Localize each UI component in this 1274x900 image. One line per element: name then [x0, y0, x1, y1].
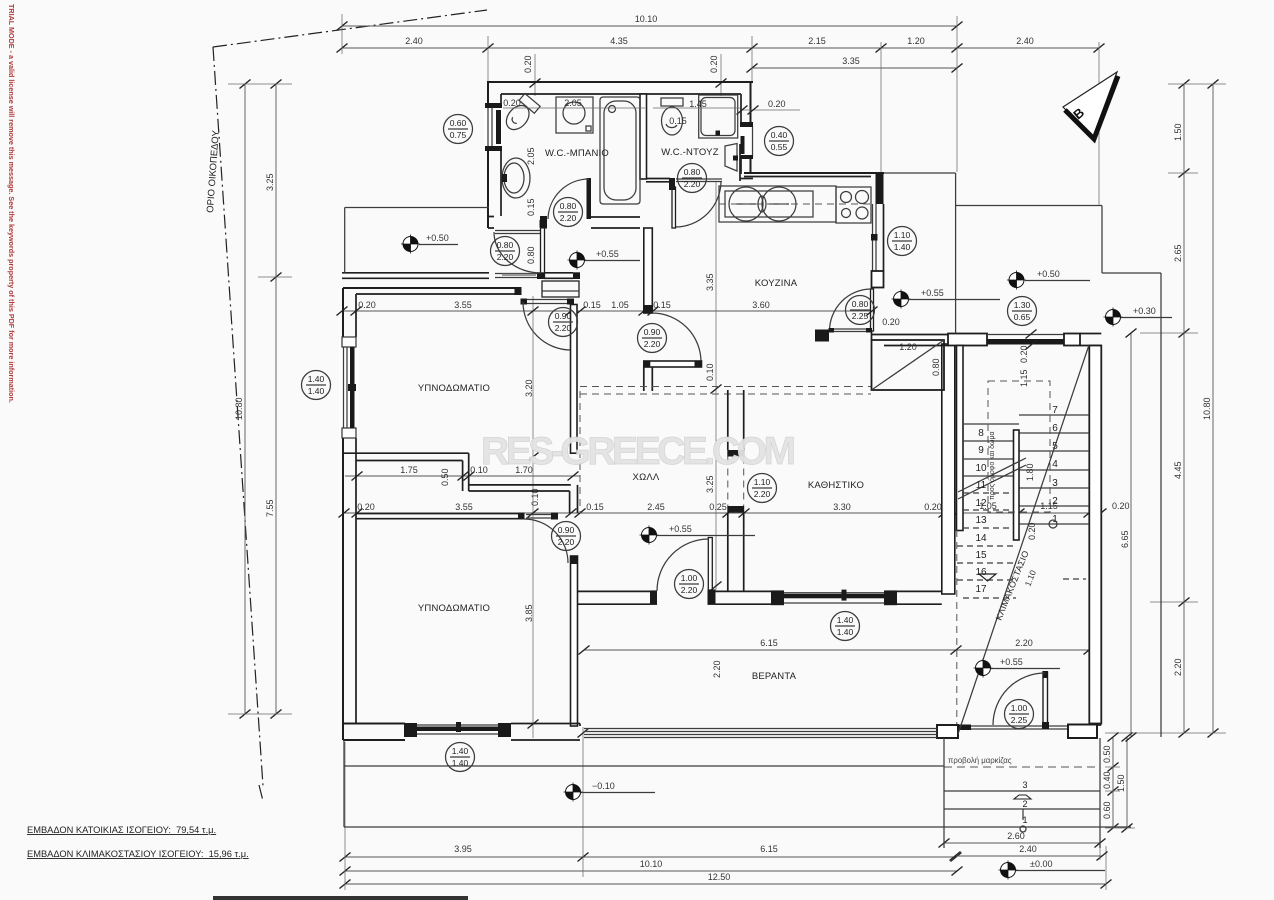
- dim row 2.40/4.35/2.15/1.20/2.40: [342, 47, 1099, 49]
- wall: closet east / bedroom2 NE: [570, 485, 578, 513]
- svg-text:1.40: 1.40: [308, 374, 325, 384]
- dim row 3.35: [752, 67, 957, 69]
- svg-text:2.20: 2.20: [684, 179, 701, 189]
- svg-text:0.80: 0.80: [526, 246, 536, 264]
- toilet shower-room: [661, 98, 683, 106]
- bottom extension lines: [344, 742, 346, 890]
- svg-text:2.15: 2.15: [808, 36, 826, 46]
- door: bedroom1 door 0.90 threshold: [524, 299, 570, 301]
- stair direction triangle at 16/17: [979, 574, 996, 581]
- svg-text:10.10: 10.10: [640, 859, 663, 869]
- svg-text:0.60: 0.60: [450, 118, 467, 128]
- dashed: open ceiling edge over hall/kitchen: [580, 386, 871, 388]
- window: bathroom west 0.60: [484, 106, 503, 148]
- svg-text:14: 14: [975, 533, 987, 544]
- svg-text:0.80: 0.80: [931, 358, 941, 376]
- fireplace: [872, 340, 945, 390]
- entrance steps dim 2.60: [944, 842, 1100, 844]
- veranda floor edge lines: [584, 729, 937, 738]
- stair diagonal line: [958, 345, 1089, 734]
- svg-text:0.90: 0.90: [558, 525, 575, 535]
- svg-text:+0.30: +0.30: [1133, 306, 1156, 316]
- interior vertical dim line hall/kitchen: [715, 182, 717, 590]
- svg-text:6: 6: [1052, 423, 1058, 434]
- wall: stair west: [957, 346, 964, 531]
- wall: south wall living segment w/ window 1.40: [716, 591, 772, 604]
- svg-text:0.40: 0.40: [771, 130, 788, 140]
- entrance steps: [944, 738, 1100, 848]
- svg-text:13: 13: [975, 515, 987, 526]
- level +0.50 NE terrace: [1007, 271, 1026, 290]
- door leaf: shower-room door 0.80: [675, 181, 721, 227]
- svg-text:2.20: 2.20: [1173, 658, 1183, 676]
- bottom dim row 12.50: [345, 883, 1106, 885]
- svg-text:1.40: 1.40: [837, 615, 854, 625]
- wall: WC block east exterior: [750, 82, 752, 174]
- wall: bedroom1 north: [343, 287, 521, 289]
- svg-text:ΚΑΘΗΣΤΙΚΟ: ΚΑΘΗΣΤΙΚΟ: [808, 480, 864, 491]
- svg-text:2.20: 2.20: [712, 660, 722, 678]
- right small dim column 1.50: [1126, 737, 1128, 828]
- svg-text:2.20: 2.20: [754, 489, 771, 499]
- veranda dim 6.15 / 2.20: [584, 649, 1089, 651]
- svg-text:3.25: 3.25: [265, 173, 275, 191]
- level +-0.00 ground: [999, 861, 1018, 880]
- svg-text:±0.00: ±0.00: [1030, 859, 1052, 869]
- wall: bedroom2 south exterior w/ window 1.40: [343, 724, 405, 741]
- svg-text:3.30: 3.30: [833, 502, 851, 512]
- stair numbers left flight: [975, 428, 987, 595]
- svg-text:0.15: 0.15: [526, 198, 536, 216]
- svg-text:1.40: 1.40: [894, 242, 911, 252]
- svg-text:10.80: 10.80: [1202, 397, 1212, 420]
- left dim column 3.25/7.55: [275, 84, 277, 714]
- svg-text:0.15: 0.15: [669, 116, 687, 126]
- svg-text:0.20: 0.20: [357, 502, 375, 512]
- wall: WC block west exterior: [487, 82, 489, 228]
- level +0.55 WC entry: [568, 251, 587, 270]
- svg-text:TRIAL MODE - a valid license w: TRIAL MODE - a valid license will remove…: [7, 4, 16, 403]
- stair dim row 1.05/1.15/0.20: [957, 512, 1101, 514]
- shower tray: [699, 95, 738, 138]
- svg-text:3.35: 3.35: [842, 56, 860, 66]
- svg-text:7: 7: [1052, 405, 1058, 416]
- left dim column 10.80: [244, 84, 246, 714]
- svg-text:0.15: 0.15: [653, 300, 671, 310]
- svg-text:3.60: 3.60: [752, 300, 770, 310]
- 0.20 wall offset ticks on top wall: [534, 54, 536, 96]
- svg-text:2.20: 2.20: [681, 585, 698, 595]
- svg-text:12.50: 12.50: [708, 872, 731, 882]
- svg-text:ΧΩΛΛ: ΧΩΛΛ: [633, 472, 660, 483]
- svg-text:+0.50: +0.50: [1037, 269, 1060, 279]
- svg-text:W.C.-ΜΠΑΝΙΟ: W.C.-ΜΠΑΝΙΟ: [545, 148, 609, 159]
- svg-text:1.20: 1.20: [899, 342, 917, 352]
- svg-text:1.15: 1.15: [1019, 369, 1029, 387]
- svg-text:3.85: 3.85: [524, 604, 534, 622]
- wall: hall north stub down to dashed: [644, 367, 653, 391]
- svg-text:1.40: 1.40: [837, 627, 854, 637]
- level +0.55 kitchen east: [892, 290, 911, 309]
- svg-text:ΕΜΒΑΔΟΝ ΚΛΙΜΑΚΟΣΤΑΣΙΟΥ ΙΣΟΓΕΙΟ: ΕΜΒΑΔΟΝ ΚΛΙΜΑΚΟΣΤΑΣΙΟΥ ΙΣΟΓΕΙΟΥ: 15,96 τ…: [27, 849, 249, 859]
- wall: bedroom2 north thin w/ door: [356, 513, 519, 515]
- door: corridor door 0.90 arc: [652, 313, 701, 362]
- toilet bathroom (rotated): [501, 93, 540, 134]
- interior dim row closet: [345, 475, 580, 477]
- window: bedroom1 west 1.40: [339, 337, 358, 438]
- svg-text:+0.55: +0.55: [921, 288, 944, 298]
- svg-text:1.75: 1.75: [400, 465, 418, 475]
- svg-text:0.20: 0.20: [768, 99, 786, 109]
- wall: hall/living divider x728-744: [728, 390, 744, 450]
- corner sink shower-room: [725, 144, 737, 172]
- closet detail right of WC door: [542, 281, 579, 297]
- wall: bathroom/shower-room divider: [640, 94, 647, 179]
- door leaf: entrance door 1.00: [1043, 672, 1048, 725]
- svg-text:4.35: 4.35: [610, 36, 628, 46]
- svg-text:0.55: 0.55: [771, 142, 788, 152]
- svg-text:1.40: 1.40: [308, 386, 325, 396]
- level +0.30 east terrace: [1104, 308, 1123, 327]
- svg-text:1.20: 1.20: [907, 36, 925, 46]
- svg-text:4.45: 4.45: [1173, 461, 1183, 479]
- door: kitchen-living door 0.80 leaf+arc: [871, 289, 874, 331]
- lower terrace -0.10 outline: [344, 740, 1131, 827]
- canopy projection dashed: [944, 766, 1098, 768]
- svg-text:15: 15: [975, 550, 987, 561]
- wall: bedroom1 east: [571, 305, 578, 454]
- svg-text:3.20: 3.20: [524, 379, 534, 397]
- right dim column 10.80: [1212, 84, 1214, 733]
- svg-text:−0.10: −0.10: [592, 781, 615, 791]
- svg-text:0.65: 0.65: [1014, 312, 1031, 322]
- svg-text:+0.55: +0.55: [669, 524, 692, 534]
- wall: south wall hall segment: [578, 591, 651, 604]
- wall: WC block top exterior: [487, 81, 753, 83]
- svg-text:0.80: 0.80: [497, 240, 514, 250]
- svg-text:2.20: 2.20: [558, 537, 575, 547]
- wall: hall north short w/ caps: [644, 361, 702, 367]
- svg-text:0.80: 0.80: [560, 201, 577, 211]
- svg-text:ΒΕΡΑΝΤΑ: ΒΕΡΑΝΤΑ: [752, 671, 797, 682]
- svg-text:1.00: 1.00: [1011, 703, 1028, 713]
- stair side dim 6.65: [1130, 333, 1132, 737]
- right small dim column 0.50/0.40/0.60: [1112, 737, 1114, 828]
- bathtub: [600, 97, 640, 204]
- door: hall-veranda door 1.00: [708, 538, 712, 591]
- svg-text:0.20: 0.20: [709, 55, 719, 73]
- svg-text:3.25: 3.25: [705, 475, 715, 493]
- svg-text:2.20: 2.20: [497, 252, 514, 262]
- svg-text:1.40: 1.40: [452, 746, 469, 756]
- svg-text:W.C.-ΝΤΟΥΖ: W.C.-ΝΤΟΥΖ: [661, 147, 718, 158]
- right dim column 1.50/2.65/4.45/2.20: [1183, 84, 1185, 733]
- stair numbers right flight: [1052, 405, 1058, 525]
- svg-text:2.40: 2.40: [1019, 844, 1037, 854]
- dashed centerline through counter: [719, 203, 871, 205]
- wall: entrance south w/ door 1.00: [937, 725, 958, 738]
- interior dim row bedroom2/hall/living: [344, 512, 957, 514]
- level +0.55 hall: [640, 526, 659, 545]
- level +0.55 entrance: [974, 659, 993, 678]
- svg-text:2.65: 2.65: [1173, 244, 1183, 262]
- wall: shower-room east niche/sink wall: [739, 144, 741, 181]
- wall: stair north w/ window 1.30 + sill boxes: [948, 334, 987, 346]
- svg-text:1.40: 1.40: [452, 758, 469, 768]
- level -0.10 terrace: [564, 783, 583, 802]
- stair left flight treads dashed: [957, 493, 1019, 580]
- svg-text:9: 9: [978, 445, 984, 456]
- svg-text:0.20: 0.20: [924, 502, 942, 512]
- wall: bedroom1 south / closet jog: [343, 453, 469, 491]
- wall: kitchen east w/ corner: [876, 173, 884, 204]
- svg-text:ΥΠΝΟΔΩΜΑΤΙΟ: ΥΠΝΟΔΩΜΑΤΙΟ: [418, 383, 490, 394]
- svg-text:2.40: 2.40: [405, 36, 423, 46]
- svg-text:1.30: 1.30: [1014, 300, 1031, 310]
- svg-text:1.10: 1.10: [894, 230, 911, 240]
- svg-text:1.50: 1.50: [1173, 123, 1183, 141]
- svg-text:2.45: 2.45: [647, 502, 665, 512]
- svg-text:12: 12: [975, 498, 987, 509]
- svg-text:8: 8: [978, 428, 984, 439]
- svg-text:ΥΠΝΟΔΩΜΑΤΙΟ: ΥΠΝΟΔΩΜΑΤΙΟ: [418, 603, 490, 614]
- svg-text:0.15: 0.15: [583, 300, 601, 310]
- svg-text:17: 17: [975, 584, 987, 595]
- right extension lines: [1168, 83, 1226, 85]
- left extension lines: [228, 83, 292, 85]
- stair left flight treads solid: [963, 424, 1019, 476]
- svg-text:0.20: 0.20: [523, 55, 533, 73]
- svg-text:6.15: 6.15: [760, 844, 778, 854]
- svg-text:10: 10: [975, 463, 987, 474]
- dashed rect upper floor: [988, 381, 1050, 512]
- wall: kitchen north: [744, 172, 884, 174]
- svg-text:ΚΟΥΖΙΝΑ: ΚΟΥΖΙΝΑ: [755, 278, 798, 289]
- entrance steps dim 2.40: [955, 855, 1102, 857]
- svg-text:1.50: 1.50: [1116, 774, 1126, 792]
- wall: stair east: [1089, 346, 1101, 724]
- door leaf: bathroom door 0.80: [587, 178, 592, 219]
- svg-text:RES-GREECE.COM: RES-GREECE.COM: [481, 430, 797, 473]
- svg-text:0.25: 0.25: [709, 502, 727, 512]
- svg-text:2.25: 2.25: [852, 311, 869, 321]
- svg-text:0.60: 0.60: [1102, 801, 1112, 819]
- bottom edge partial line: [213, 896, 468, 900]
- svg-text:0.90: 0.90: [644, 327, 661, 337]
- terrace thin edges NE: [884, 173, 1161, 737]
- bottom dim row 3.95/6.15: [345, 856, 956, 858]
- kitchen counter: [719, 186, 836, 222]
- svg-text:2.25: 2.25: [1011, 715, 1028, 725]
- washing machine: [556, 97, 593, 133]
- stair newel/stringer: [1014, 430, 1020, 540]
- svg-text:2.05: 2.05: [526, 147, 536, 165]
- stair break line: [958, 458, 1026, 499]
- interior dim row bedroom1/hall/kitchen: [342, 310, 872, 312]
- top extension lines: [341, 14, 343, 54]
- svg-text:10.80: 10.80: [234, 397, 244, 420]
- svg-text:3: 3: [1022, 780, 1027, 790]
- svg-text:2.20: 2.20: [555, 323, 572, 333]
- svg-text:προς όροφο και δώμα: προς όροφο και δώμα: [988, 431, 996, 500]
- stair right flight treads: [1019, 415, 1089, 524]
- svg-text:10.10: 10.10: [635, 14, 658, 24]
- wall: bathroom south w/ door opening: [488, 217, 494, 229]
- svg-text:0.20: 0.20: [1112, 501, 1130, 511]
- svg-text:2.05: 2.05: [564, 98, 582, 108]
- svg-text:3.35: 3.35: [705, 273, 715, 291]
- svg-text:2.20: 2.20: [1015, 638, 1033, 648]
- svg-text:2.20: 2.20: [560, 213, 577, 223]
- sink bathroom: [502, 158, 530, 198]
- dim 0.20 at shower window: [742, 109, 800, 111]
- svg-text:2: 2: [1052, 496, 1058, 507]
- svg-text:0.75: 0.75: [450, 130, 467, 140]
- wall: living east: [942, 344, 955, 594]
- bottom dim row 10.10: [345, 870, 957, 872]
- svg-text:1.05: 1.05: [611, 300, 629, 310]
- svg-text:+0.55: +0.55: [596, 249, 619, 259]
- svg-text:0.10: 0.10: [705, 363, 715, 381]
- wall: living north band: [872, 335, 949, 346]
- door leaf: WC entry door 0.80: [541, 227, 545, 277]
- svg-text:11: 11: [976, 480, 987, 491]
- svg-text:0.90: 0.90: [555, 311, 572, 321]
- svg-text:0.80: 0.80: [684, 167, 701, 177]
- svg-text:1.10: 1.10: [754, 477, 771, 487]
- svg-text:6.15: 6.15: [760, 638, 778, 648]
- svg-text:3: 3: [1052, 478, 1058, 489]
- svg-text:2.40: 2.40: [1016, 36, 1034, 46]
- svg-text:0.50: 0.50: [440, 468, 450, 486]
- svg-text:ΕΜΒΑΔΟΝ ΚΑΤΟΙΚΙΑΣ ΙΣΟΓΕΙΟΥ: 7: ΕΜΒΑΔΟΝ ΚΑΤΟΙΚΙΑΣ ΙΣΟΓΕΙΟΥ: 79,54 τ.μ.: [27, 825, 216, 835]
- svg-text:2.20: 2.20: [644, 339, 661, 349]
- wall: corridor east (x644-652): [644, 228, 653, 313]
- svg-text:0.15: 0.15: [586, 502, 604, 512]
- svg-text:0.80: 0.80: [852, 299, 869, 309]
- svg-text:προβολή μαρκίζας: προβολή μαρκίζας: [948, 756, 1012, 765]
- window: shower-room east 0.55: [739, 126, 753, 157]
- svg-text:0.20: 0.20: [882, 317, 900, 327]
- svg-text:3.55: 3.55: [455, 502, 473, 512]
- wall: bedroom1 west exterior: [342, 288, 344, 740]
- svg-text:4: 4: [1052, 459, 1058, 470]
- svg-text:3.55: 3.55: [454, 300, 472, 310]
- svg-text:1.45: 1.45: [689, 99, 707, 109]
- svg-text:+0.50: +0.50: [426, 233, 449, 243]
- kitchen stove: [836, 187, 871, 223]
- wall: bedroom2 east: [571, 556, 578, 726]
- interior vertical dim line bedrooms: [532, 296, 534, 738]
- svg-text:0.20: 0.20: [503, 98, 521, 108]
- svg-text:1.80: 1.80: [1025, 463, 1035, 481]
- svg-text:7.55: 7.55: [265, 499, 275, 517]
- svg-text:+0.55: +0.55: [1000, 657, 1023, 667]
- level +0.50 landing: [401, 235, 420, 254]
- property boundary line top: [213, 10, 487, 47]
- dim row 10.10: [342, 25, 957, 27]
- svg-text:3.95: 3.95: [454, 844, 472, 854]
- svg-text:1.00: 1.00: [681, 573, 698, 583]
- svg-text:0.50: 0.50: [1102, 745, 1112, 763]
- landing edge thin lines: [345, 207, 489, 209]
- svg-text:2: 2: [1022, 799, 1027, 809]
- svg-text:6.65: 6.65: [1120, 530, 1130, 548]
- svg-text:0.20: 0.20: [358, 300, 376, 310]
- wall: shower-room south w/ door: [646, 178, 670, 180]
- property boundary line left: [213, 47, 263, 801]
- wall: landing south (bedroom block north face) w/ WC entry door: [342, 272, 489, 274]
- svg-text:0.40: 0.40: [1102, 771, 1112, 789]
